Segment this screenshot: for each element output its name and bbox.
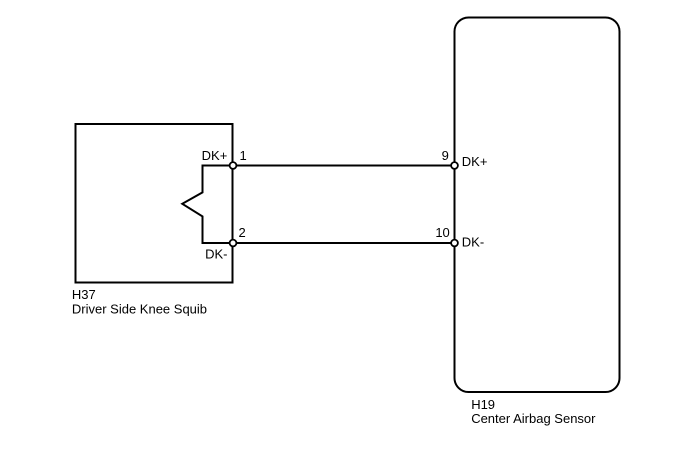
svg-text:DK-: DK- (205, 247, 227, 262)
svg-text:2: 2 (239, 225, 246, 240)
wire DK- net (pin 2 of H37 to pin 10 of H19) (233, 242, 455, 244)
svg-text:DK+: DK+ (462, 154, 488, 169)
svg-text:1: 1 (240, 148, 247, 163)
connector H37 box (Driver Side Knee Squib) (76, 124, 233, 283)
connector H19 box (Center Airbag Sensor) (455, 18, 620, 393)
svg-text:Center Airbag Sensor: Center Airbag Sensor (471, 411, 596, 426)
svg-text:DK-: DK- (462, 235, 484, 250)
squib (inflator) element inside H37 (182, 166, 232, 244)
svg-text:Driver Side Knee Squib: Driver Side Knee Squib (72, 301, 207, 316)
svg-text:9: 9 (442, 148, 449, 163)
terminal pin 2 of H37 (230, 240, 237, 247)
svg-text:H37: H37 (72, 287, 96, 302)
terminal pin 1 of H37 (230, 162, 237, 169)
svg-text:10: 10 (435, 225, 449, 240)
terminal pin 10 of H19 (451, 240, 458, 247)
wire DK+ net (pin 1 of H37 to pin 9 of H19) (233, 165, 455, 167)
svg-text:DK+: DK+ (202, 148, 228, 163)
svg-text:H19: H19 (471, 397, 495, 412)
terminal pin 9 of H19 (451, 162, 458, 169)
